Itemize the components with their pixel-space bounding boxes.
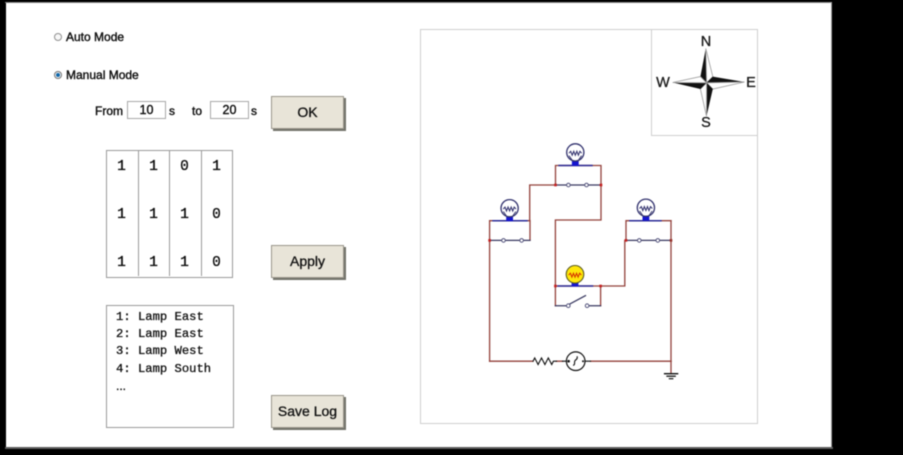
compass label W <box>656 75 670 91</box>
ground <box>665 374 678 379</box>
wire bottom left <box>490 360 563 362</box>
switch S4 (south, open) <box>555 296 600 308</box>
compass label E <box>746 75 756 91</box>
svg-text:S: S <box>701 115 711 131</box>
wire from node A to west lamp <box>530 185 556 221</box>
switch S2 (west, closed) <box>490 239 530 243</box>
radio Manual Mode (selected) <box>54 71 62 79</box>
lamp East (bulb) <box>637 199 654 221</box>
wire south node to east loop <box>601 240 625 286</box>
wire north loop left side <box>556 166 602 186</box>
compass box <box>651 29 758 136</box>
svg-text:E: E <box>746 75 756 91</box>
window frame top <box>5 2 832 3</box>
source V1 (AC) <box>566 352 585 371</box>
junction node B (601,185) <box>600 184 603 187</box>
junction node F (600.6,286) <box>599 285 602 288</box>
compass label S <box>701 115 711 131</box>
window frame bottom <box>5 447 833 449</box>
radio Auto Mode <box>54 33 62 41</box>
svg-text:N: N <box>701 34 711 50</box>
window frame left <box>7 2 9 448</box>
wire ground drop <box>670 361 672 373</box>
junction node G (671,240.4) <box>670 239 673 242</box>
Apply button <box>271 245 344 278</box>
junction node D (626,240.4) <box>625 239 628 242</box>
OK button <box>271 96 344 129</box>
lamp North (bulb) <box>567 144 584 166</box>
log listbox <box>106 305 234 428</box>
junction node A (555.5,185) <box>554 184 557 187</box>
window frame right <box>830 2 831 448</box>
circuit panel border <box>420 29 758 424</box>
From / to row <box>95 104 123 118</box>
lamp East (terminal bar) <box>630 220 661 222</box>
Save Log button <box>271 395 344 428</box>
resistor R1 <box>533 358 591 365</box>
compass label N <box>701 34 711 50</box>
svg-text:W: W <box>656 75 670 91</box>
lamp West (bulb) <box>501 200 518 222</box>
wire west loop <box>490 221 530 241</box>
truth table <box>106 150 233 278</box>
wire west branch down <box>489 240 491 361</box>
wire bottom right <box>591 360 672 362</box>
wire jog from north loop to south lamp <box>555 185 601 286</box>
wire south lamp loop <box>555 286 600 306</box>
switch S1 (north, closed) <box>556 183 602 187</box>
wire east side down to ground node <box>670 221 672 362</box>
junction node E (555.4,286) <box>554 285 557 288</box>
lamp South (bulb, lit) <box>566 266 584 287</box>
wire east loop <box>626 221 671 241</box>
junction node C (489.6,240.4) <box>488 239 491 242</box>
lamp North (terminal bar) <box>559 165 592 167</box>
lamp South (terminal bar) <box>558 285 593 287</box>
compass rose <box>673 49 745 117</box>
switch S3 (east, closed) <box>626 239 671 243</box>
lamp West (terminal bar) <box>493 220 527 222</box>
